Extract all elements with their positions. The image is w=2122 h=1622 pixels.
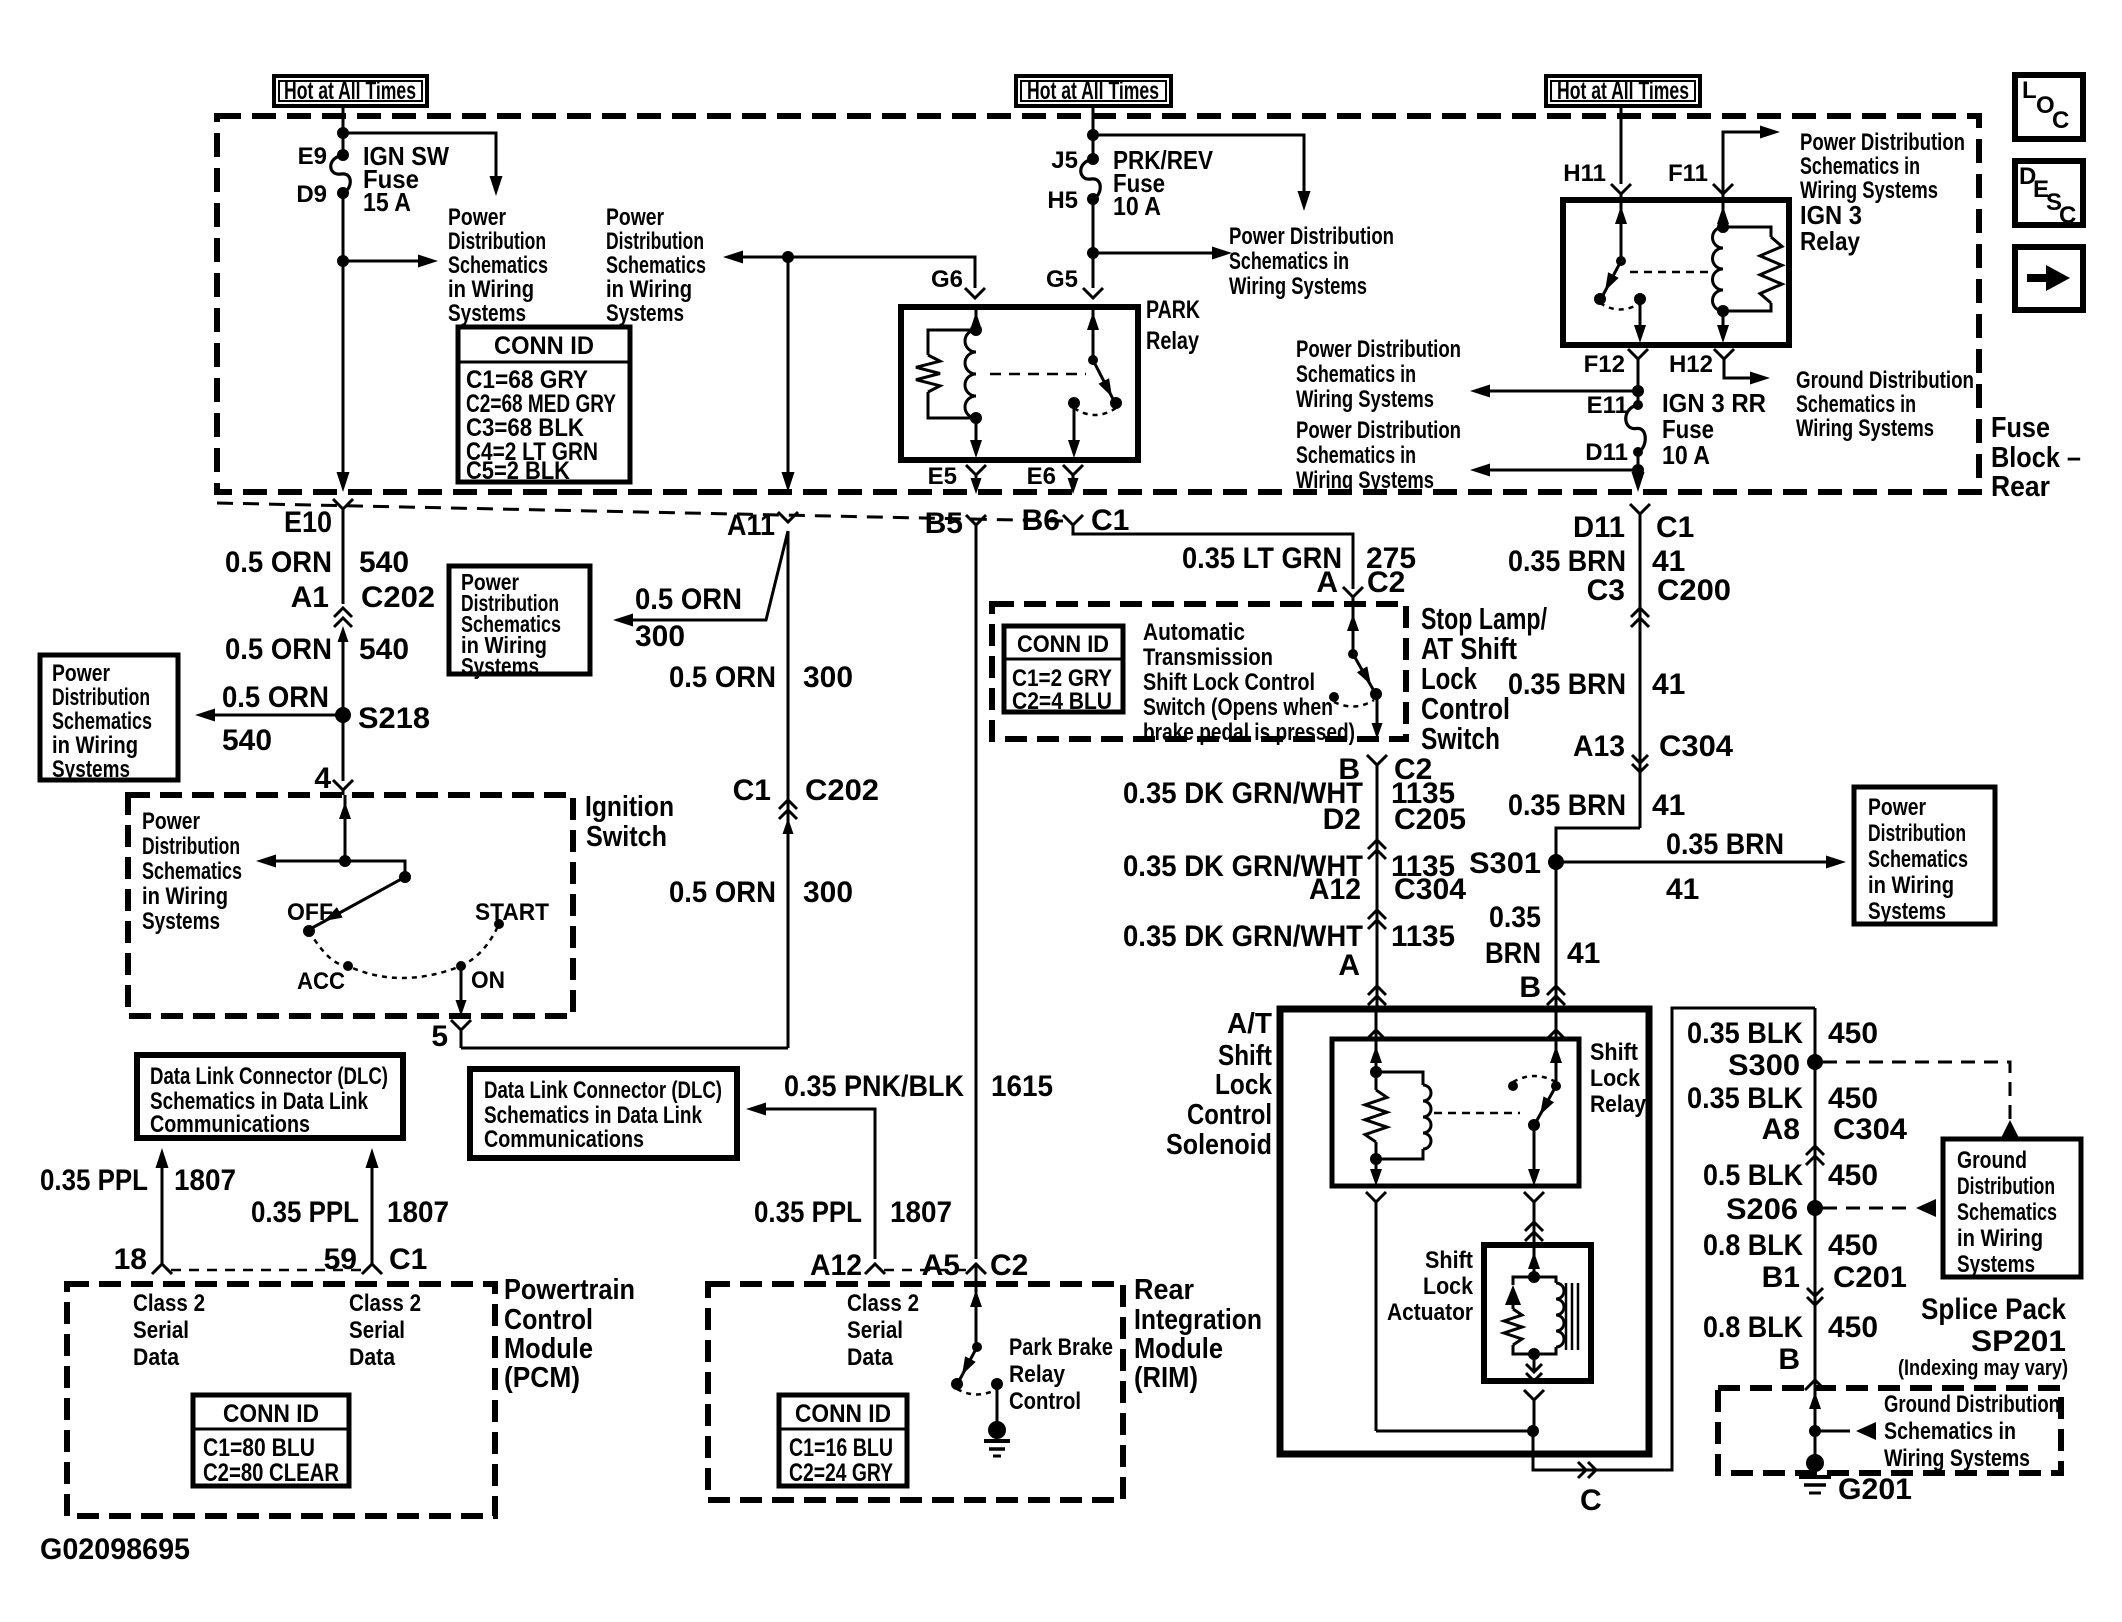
svg-text:Distribution: Distribution (448, 228, 546, 255)
svg-text:Power: Power (448, 204, 506, 231)
Data Link Connector box (left) (137, 1055, 403, 1138)
wire below IGN 3 RR fuse (1632, 452, 1645, 492)
svg-text:Distribution: Distribution (606, 228, 704, 255)
svg-text:BRN: BRN (1485, 937, 1541, 970)
svg-text:C2: C2 (990, 1249, 1028, 1282)
svg-text:Integration: Integration (1134, 1304, 1262, 1336)
svg-text:C200: C200 (1657, 574, 1731, 607)
junction node D11 branch (1632, 464, 1644, 476)
PARK relay resistor branch (916, 330, 976, 418)
pin label D11 / C1 (below fuse block) (1573, 511, 1694, 544)
svg-text:Park Brake: Park Brake (1009, 1334, 1113, 1361)
svg-text:A12: A12 (1309, 873, 1361, 906)
actuator diode+resistor branch (1504, 1277, 1534, 1354)
connector double chevron C304 (BRN) (1632, 755, 1648, 772)
PARK relay box (901, 307, 1138, 460)
svg-text:C304: C304 (1833, 1113, 1907, 1146)
RIM dashed box (708, 1284, 1123, 1500)
A/T shift lock control solenoid box (1280, 1009, 1649, 1454)
pin label B (splice pack) (1778, 1343, 1800, 1376)
wire label 0.35 BRN (above arrow) (1666, 828, 1784, 861)
svg-text:Schematics in: Schematics in (1229, 248, 1349, 275)
svg-text:J5: J5 (1051, 147, 1078, 174)
text Power Distribution Schematics in Wiring Systems (mid right upper) (1296, 336, 1461, 413)
wire label 540 under arrow (222, 724, 272, 757)
svg-text:Shift Lock Control: Shift Lock Control (1143, 669, 1315, 696)
wire H11 into relay (1620, 194, 1623, 202)
svg-text:Wiring Systems: Wiring Systems (1229, 273, 1367, 300)
svg-text:Schematics: Schematics (1868, 846, 1968, 873)
junction node on A11 wire (782, 251, 794, 263)
diagonal branch from A11 to left arrow (613, 531, 788, 627)
wire label 0.8 BLK 450 (1) (1703, 1229, 1878, 1262)
svg-text:Power: Power (142, 808, 200, 835)
wire label 0.35 LT GRN 275 (1182, 542, 1416, 575)
svg-text:H11: H11 (1563, 160, 1606, 187)
svg-text:Power Distribution: Power Distribution (1296, 336, 1461, 363)
svg-text:0.5 ORN: 0.5 ORN (225, 546, 332, 579)
wire C exit of solenoid box (1533, 1008, 1815, 1470)
connector chevron E6 with arrow (1063, 465, 1083, 494)
pin label E9 (298, 143, 327, 170)
arrow left (upper) to Power Distribution text (1470, 385, 1638, 398)
connector double chevron into actuator (1525, 1222, 1543, 1241)
wire A11 down (787, 531, 790, 1048)
contact dot START (494, 919, 504, 929)
arrow left inside ignition box (256, 855, 345, 868)
junction node above PRK/REV fuse (1087, 129, 1099, 141)
label Ignition Switch (585, 791, 674, 853)
label PARK Relay (1146, 296, 1200, 355)
svg-text:Systems: Systems (606, 300, 684, 327)
connector chevron 5 (451, 1020, 471, 1048)
wire label 0.5 ORN 540 (1) (225, 546, 409, 579)
svg-text:(RIM): (RIM) (1134, 1362, 1198, 1394)
S300 dashed branch to ground distribution (1823, 1062, 2019, 1138)
wire label 0.35 PPL 1807 (mid) (251, 1196, 449, 1229)
IGN 3 relay coil (1713, 200, 1729, 343)
pin label A11 (727, 509, 775, 542)
svg-text:A13: A13 (1573, 730, 1625, 763)
svg-text:C304: C304 (1659, 730, 1733, 763)
svg-text:Systems: Systems (1868, 898, 1946, 925)
wire to right-pointing arrow (343, 255, 438, 268)
connector chevron 4 (333, 780, 353, 795)
svg-text:D9: D9 (296, 181, 327, 208)
svg-text:A5: A5 (922, 1249, 960, 1282)
ground G201 symbol (1799, 1454, 1912, 1506)
connector chevron G6 (965, 288, 985, 298)
svg-text:Schematics in: Schematics in (1800, 153, 1920, 180)
svg-text:0.8 BLK: 0.8 BLK (1703, 1229, 1803, 1262)
svg-text:0.35 DK GRN/WHT: 0.35 DK GRN/WHT (1123, 920, 1363, 953)
svg-text:Class 2: Class 2 (349, 1290, 421, 1317)
pin label D2 / C205 (1323, 803, 1466, 836)
svg-text:D11: D11 (1585, 439, 1628, 466)
svg-text:Wiring Systems: Wiring Systems (1296, 386, 1434, 413)
svg-text:Data: Data (847, 1344, 894, 1371)
pin label E6 (1027, 463, 1056, 490)
svg-text:E9: E9 (298, 143, 327, 170)
G201 branch with back arrow (1815, 1422, 1876, 1440)
label Shift Lock Actuator (1387, 1247, 1474, 1326)
svg-text:Data: Data (349, 1344, 396, 1371)
svg-text:Distribution: Distribution (1957, 1173, 2055, 1200)
svg-text:Power: Power (606, 204, 664, 231)
wire label 0.35 PNK/BLK 1615 (784, 1070, 1053, 1103)
svg-text:Schematics in: Schematics in (1296, 442, 1416, 469)
svg-text:Solenoid: Solenoid (1166, 1129, 1272, 1161)
svg-text:S301: S301 (1469, 847, 1541, 880)
pin label H5 (1047, 187, 1078, 214)
svg-text:H5: H5 (1047, 187, 1078, 214)
svg-text:Hot at All Times: Hot at All Times (1027, 77, 1159, 105)
wire label 0.35 BRN 41 (3) (1508, 789, 1685, 822)
svg-text:E11: E11 (1587, 392, 1628, 419)
wire label 0.5 ORN 300 (2) (669, 876, 853, 909)
stop lamp switch pivot (1348, 649, 1358, 659)
svg-text:Schematics: Schematics (448, 252, 548, 279)
wire actuator to C exit (1533, 1400, 1536, 1431)
svg-text:Serial: Serial (349, 1317, 405, 1344)
svg-text:Class 2: Class 2 (847, 1290, 919, 1317)
svg-text:C201: C201 (1833, 1261, 1907, 1294)
svg-text:0.5 ORN: 0.5 ORN (635, 583, 742, 616)
svg-text:0.5 ORN: 0.5 ORN (669, 661, 776, 694)
wire S301 right arrow (1556, 856, 1846, 869)
svg-text:G5: G5 (1046, 266, 1078, 293)
svg-text:300: 300 (803, 876, 853, 909)
pin label 5 (431, 1020, 448, 1053)
dashed connector line 18-59 (171, 1269, 363, 1272)
shift lock relay box (1332, 1039, 1579, 1186)
wire relay to actuator (1533, 1202, 1536, 1245)
junction node to PD arrow (337, 255, 349, 267)
connector chevron G5 (1083, 288, 1103, 298)
dashed connector line A12-A5 (884, 1269, 967, 1272)
svg-text:Wiring Systems: Wiring Systems (1796, 415, 1934, 442)
wire into dashed box with up arrow (1809, 1392, 1821, 1409)
fuse IGN SW 15A element (331, 149, 351, 199)
wire label 0.35 PPL 1807 (left) (40, 1164, 236, 1197)
svg-text:Communications: Communications (484, 1126, 644, 1153)
svg-text:D2: D2 (1323, 803, 1361, 836)
svg-text:Data Link Connector (DLC): Data Link Connector (DLC) (484, 1077, 722, 1104)
park brake relay control switch (951, 1264, 1003, 1395)
pin label B1 / C201 (1762, 1261, 1907, 1294)
svg-text:0.5 ORN: 0.5 ORN (225, 633, 332, 666)
splice S301 (1469, 847, 1564, 880)
junction node A/actuator wires (1527, 1425, 1539, 1437)
wire S218 to left arrow (195, 709, 343, 722)
PCM dashed box (67, 1284, 495, 1516)
label Powertrain Control Module (PCM) (504, 1274, 635, 1394)
svg-text:Systems: Systems (142, 908, 220, 935)
actuator wire in (1528, 1245, 1540, 1283)
svg-text:in Wiring: in Wiring (1957, 1225, 2043, 1252)
svg-text:Serial: Serial (847, 1317, 903, 1344)
svg-text:300: 300 (803, 661, 853, 694)
svg-text:1807: 1807 (387, 1196, 449, 1229)
svg-text:Automatic: Automatic (1143, 619, 1245, 646)
label PRK/REV Fuse 10 A (1113, 145, 1214, 221)
pin label A1 / C202 (291, 581, 435, 614)
svg-text:A: A (1338, 949, 1360, 982)
svg-text:C1=16 BLU: C1=16 BLU (789, 1434, 893, 1462)
text Class 2 Serial Data (PCM left) (133, 1290, 205, 1371)
wire H12 right arrow to Ground Distribution (1724, 359, 1770, 385)
svg-text:Hot at All Times: Hot at All Times (1557, 77, 1689, 105)
connector C202 double chevron with up arrow (334, 608, 352, 715)
CONN ID table (PCM) (193, 1395, 349, 1487)
pin label C (1580, 1484, 1602, 1517)
svg-text:Systems: Systems (52, 756, 130, 783)
svg-text:450: 450 (1828, 1017, 1878, 1050)
pin label C3 / C200 (1587, 574, 1731, 607)
wire PCM 18 to DLC (156, 1148, 169, 1264)
svg-text:L: L (2022, 77, 2037, 104)
svg-text:Module: Module (504, 1333, 593, 1365)
wire DK GRN/WHT down to solenoid (1376, 765, 1379, 1009)
svg-text:C1: C1 (1091, 504, 1129, 537)
Ground Distribution Schematics box (right) (1943, 1139, 2081, 1278)
ignition wire in with up arrow (339, 795, 351, 861)
svg-text:C3: C3 (1587, 574, 1625, 607)
wire label 0.35 BLK 450 (2) (1687, 1082, 1878, 1115)
stop lamp switch dashed box (992, 604, 1406, 739)
svg-text:Communications: Communications (150, 1111, 310, 1138)
text Power Distribution Schematics in Wiring Systems (block 2) (606, 204, 706, 327)
svg-text:B: B (1519, 971, 1541, 1004)
svg-text:A8: A8 (1762, 1113, 1800, 1146)
junction node G201 branch (1809, 1425, 1821, 1437)
text Power Distribution Schematics in Wiring Systems (3-line, middle) (1229, 223, 1394, 300)
svg-text:C1: C1 (733, 774, 771, 807)
svg-text:in Wiring: in Wiring (142, 883, 228, 910)
pin label E11 (1587, 392, 1628, 419)
pin label E10 (284, 506, 332, 539)
label START (475, 899, 549, 926)
pin label A13 / C304 (1573, 730, 1733, 763)
svg-text:41: 41 (1652, 789, 1685, 822)
svg-text:Rear: Rear (1134, 1274, 1194, 1306)
actuator coil branch (1534, 1277, 1564, 1354)
svg-text:15 A: 15 A (363, 187, 411, 217)
svg-text:450: 450 (1828, 1229, 1878, 1262)
wire label 0.5 ORN 540 (2) (225, 633, 409, 666)
svg-text:Control: Control (1187, 1099, 1272, 1131)
svg-text:A/T: A/T (1227, 1008, 1272, 1040)
svg-text:C2: C2 (1367, 566, 1405, 599)
connector chevron A12 (865, 1264, 885, 1274)
svg-text:B1: B1 (1762, 1261, 1800, 1294)
text Power Distribution Schematics in Wiring Systems (mid right lower) (1296, 417, 1461, 494)
wire RIM A12 to DLC arrow (746, 1103, 875, 1260)
pin label B (solenoid) (1519, 971, 1541, 1004)
svg-text:B5: B5 (925, 507, 963, 540)
pin label 59 / C1 (324, 1243, 428, 1276)
svg-text:Lock: Lock (1215, 1069, 1273, 1101)
wire label 0.35 BRN 41 (2) (1508, 668, 1685, 701)
wire below IGN SW fuse (337, 193, 350, 492)
svg-text:0.35 BRN: 0.35 BRN (1508, 789, 1626, 822)
svg-text:Systems: Systems (448, 300, 526, 327)
svg-text:SP201: SP201 (1971, 1325, 2066, 1358)
arrow left (lower) to Power Distribution text (1470, 464, 1638, 477)
svg-text:540: 540 (359, 546, 409, 579)
text Class 2 Serial Data (RIM) (847, 1290, 919, 1371)
svg-text:41: 41 (1666, 873, 1699, 906)
wire F11 up and right arrow (1723, 126, 1780, 201)
svg-text:CONN ID: CONN ID (223, 1400, 319, 1428)
wire label 0.35 BLK 450 (1) (1687, 1017, 1878, 1050)
pin label 18 (114, 1243, 147, 1276)
text Ground Distribution Schematics in Wiring Systems (bottom right) (1884, 1391, 2060, 1472)
svg-text:Shift: Shift (1590, 1039, 1638, 1066)
wire branch right with down arrow (1093, 135, 1311, 211)
svg-text:4: 4 (314, 762, 331, 795)
svg-text:Relay: Relay (1590, 1091, 1647, 1118)
wire S218 down to ignition switch (342, 715, 345, 781)
pin label B5 (925, 507, 963, 540)
pin label J5 (1051, 147, 1078, 174)
wire label 0.8 BLK 450 (2) (1703, 1311, 1878, 1344)
wire from Hot at All Times middle (1092, 106, 1095, 159)
svg-text:ACC: ACC (297, 968, 345, 995)
svg-text:(Indexing may vary): (Indexing may vary) (1898, 1355, 2068, 1380)
pin label B6 (1022, 504, 1060, 537)
svg-text:Shift: Shift (1218, 1040, 1272, 1072)
stop lamp switch wire out (1372, 694, 1383, 739)
svg-text:Fuse: Fuse (1991, 412, 2050, 444)
svg-text:Splice Pack: Splice Pack (1921, 1293, 2066, 1326)
stop lamp switch dashed arc (1334, 700, 1374, 707)
pin label B / C2 (below stop lamp) (1338, 753, 1432, 786)
label A/T Shift Lock Control Solenoid (1166, 1008, 1273, 1161)
junction node ignition pivot (339, 855, 351, 867)
actuator wire out (1526, 1354, 1542, 1381)
text Automatic Transmission Shift Lock Control Switch (1143, 619, 1355, 746)
connector chevron below relay (A wire) (1366, 1192, 1386, 1202)
svg-text:A11: A11 (727, 509, 775, 542)
wire label 0.5 ORN 300 (1) (669, 661, 853, 694)
fuse IGN 3 RR 10A element (1626, 400, 1646, 457)
wire E10 down (342, 509, 345, 604)
connector chevron B below stop lamp (1367, 755, 1387, 783)
svg-text:E6: E6 (1027, 463, 1056, 490)
wire ON down out of box (456, 966, 467, 1016)
svg-text:0.35 BRN: 0.35 BRN (1666, 828, 1784, 861)
svg-text:Schematics: Schematics (1957, 1199, 2057, 1226)
ground symbol in RIM (984, 1384, 1010, 1456)
svg-text:Shift: Shift (1425, 1247, 1473, 1274)
svg-text:A12: A12 (810, 1249, 862, 1282)
connector chevron B5 (966, 515, 986, 525)
fuse block - rear dashed enclosure (217, 116, 1979, 492)
pin label F11 (1668, 160, 1708, 187)
label Fuse Block - Rear (1991, 412, 2081, 503)
fuse PRK/REV 10A element (1081, 153, 1101, 205)
wire PCM 59 to DLC (366, 1148, 379, 1264)
svg-text:Wiring Systems: Wiring Systems (1884, 1445, 2030, 1472)
connector chevron 59 (362, 1264, 382, 1274)
wire BRN down (1639, 514, 1642, 828)
ignition switch dashed box (128, 795, 573, 1016)
wire BLK down from corner (1814, 1008, 1817, 1463)
svg-text:41: 41 (1652, 668, 1685, 701)
svg-text:C1=80 BLU: C1=80 BLU (203, 1434, 315, 1462)
svg-text:41: 41 (1567, 937, 1600, 970)
connector chevron A11 (778, 512, 798, 522)
connector chevron F12 (1628, 349, 1648, 359)
label ON (471, 967, 505, 994)
svg-text:PARK: PARK (1146, 296, 1200, 324)
svg-text:C5=2 BLK: C5=2 BLK (466, 457, 570, 485)
power label Hot at All Times (right) (1546, 76, 1700, 106)
svg-text:H12: H12 (1669, 351, 1713, 378)
label IGN SW Fuse 15 A (363, 141, 449, 217)
wire label 0.5 ORN 300 (diag) (635, 583, 742, 653)
svg-text:Schematics: Schematics (142, 858, 242, 885)
wire label 0.5 BLK 450 (1703, 1159, 1878, 1192)
diagram id G02098695 (40, 1533, 190, 1566)
pin label A / C2 (1316, 566, 1405, 599)
CONN ID table (RIM) (779, 1395, 907, 1487)
svg-text:Lock: Lock (1590, 1065, 1641, 1092)
svg-text:0.35 PNK/BLK: 0.35 PNK/BLK (784, 1070, 964, 1103)
power label Hot at All Times (middle) (1016, 76, 1171, 106)
label Rear Integration Module (RIM) (1134, 1274, 1262, 1394)
svg-text:Power Distribution: Power Distribution (1229, 223, 1394, 250)
IGN 3 relay dashed link (1630, 271, 1713, 274)
svg-text:Power Distribution: Power Distribution (1296, 417, 1461, 444)
PARK relay actuation dashed link (990, 373, 1086, 376)
svg-text:Actuator: Actuator (1387, 1299, 1473, 1326)
svg-text:S206: S206 (1726, 1193, 1798, 1226)
shift lock relay dashed link (1434, 1112, 1520, 1115)
svg-text:C2=4 BLU: C2=4 BLU (1012, 688, 1112, 715)
wire label 0.35 BRN 41 (1) (1508, 545, 1685, 578)
svg-text:Systems: Systems (461, 653, 539, 679)
svg-text:in Wiring: in Wiring (52, 732, 138, 759)
svg-text:Switch: Switch (1421, 721, 1500, 756)
svg-text:0.35 PPL: 0.35 PPL (754, 1196, 862, 1229)
svg-text:G201: G201 (1838, 1473, 1912, 1506)
svg-text:C205: C205 (1394, 803, 1466, 836)
text Ground Distribution Schematics in Wiring Systems (right) (1796, 367, 1974, 442)
wire from Hot at All Times right to H11 (1620, 106, 1623, 184)
wire below PRK/REV fuse (1092, 199, 1095, 288)
svg-text:C: C (2052, 107, 2069, 134)
svg-text:0.35: 0.35 (1489, 901, 1541, 934)
icon LOC box (2015, 75, 2083, 139)
wire A to bottom junction (1376, 1202, 1533, 1431)
connector C202 double chevron on A11 wire (779, 800, 797, 834)
svg-text:Serial: Serial (133, 1317, 189, 1344)
label Splice Pack SP201 (1898, 1293, 2068, 1380)
label IGN 3 RR Fuse 10 A (1662, 388, 1766, 470)
svg-text:Ignition: Ignition (585, 791, 674, 823)
svg-text:ON: ON (471, 967, 505, 994)
wire BRN jog to S301 (1556, 828, 1640, 862)
label OFF (287, 899, 333, 926)
svg-text:Wiring Systems: Wiring Systems (1296, 467, 1434, 494)
svg-text:Control: Control (504, 1304, 593, 1336)
connector chevron H11 (1611, 184, 1631, 194)
svg-text:Control: Control (1009, 1388, 1081, 1415)
pin label A (solenoid) (1338, 949, 1360, 982)
pin label A8 / C304 (1762, 1113, 1908, 1146)
